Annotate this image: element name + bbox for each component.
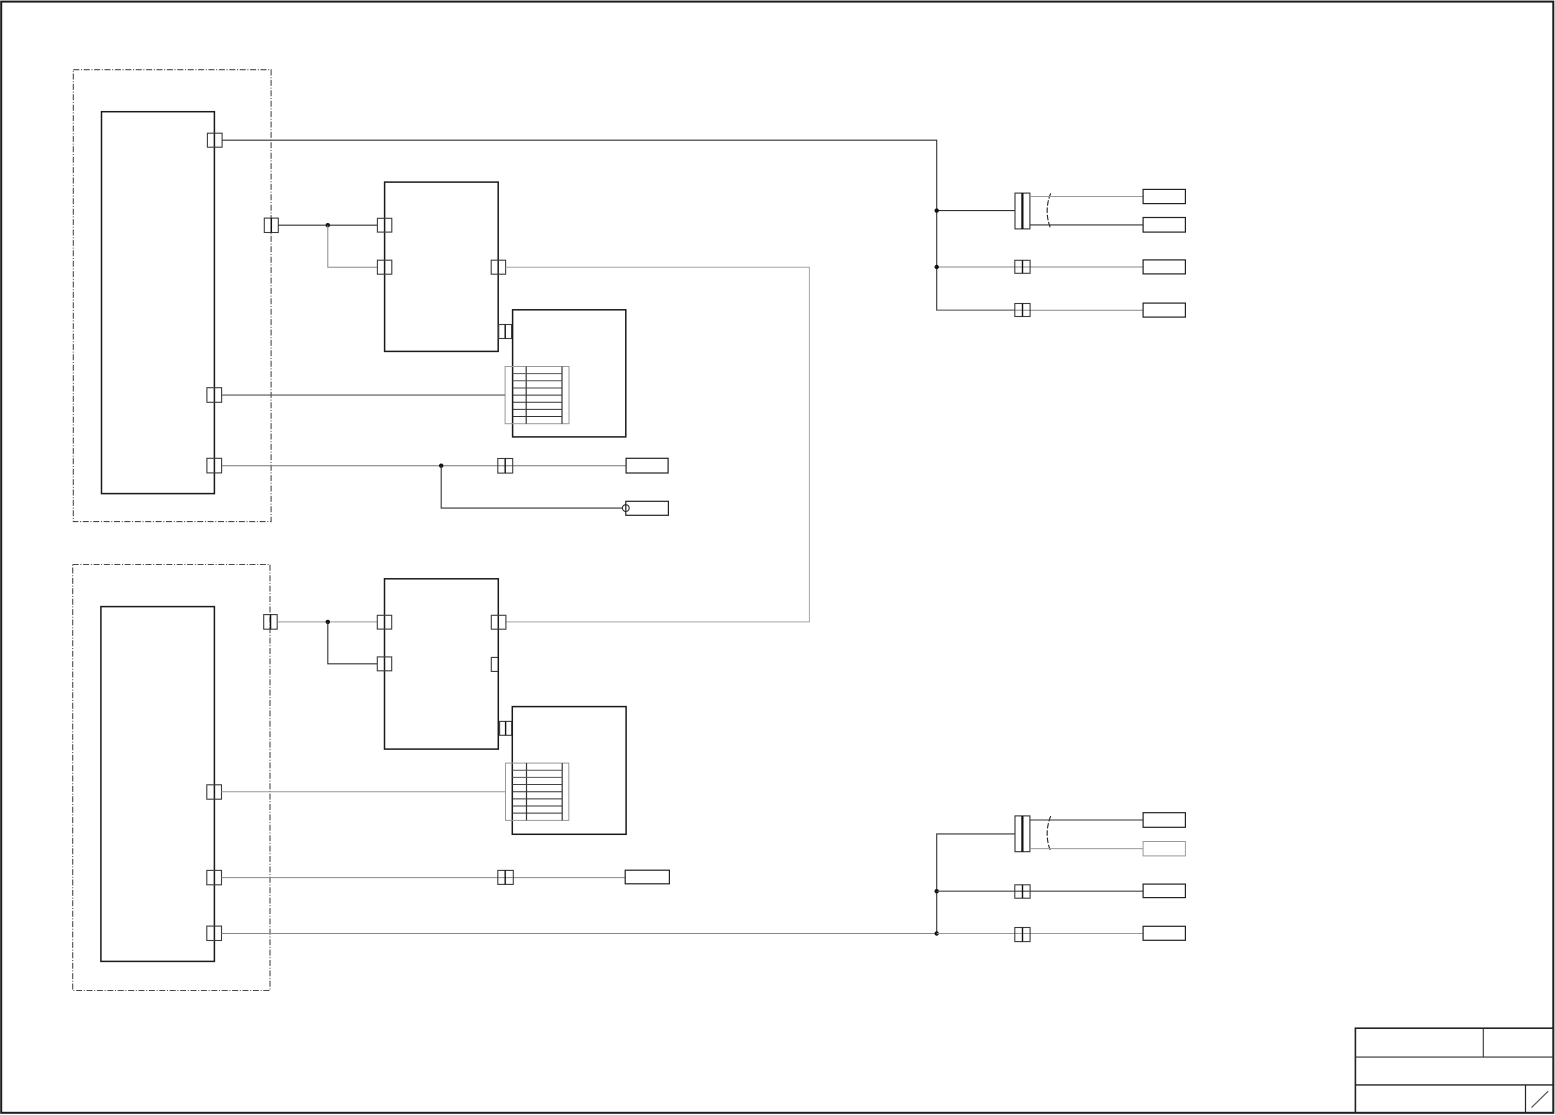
pin A2 xyxy=(207,388,222,403)
node junction xyxy=(935,265,939,269)
control unit B xyxy=(101,607,214,962)
wire TC1 out 1 xyxy=(1030,196,1143,198)
wire P1 to heater grid 2 xyxy=(222,791,506,793)
terminal R3 xyxy=(1143,260,1185,274)
shield arc 2 xyxy=(1047,816,1051,851)
pin D3 xyxy=(491,615,506,629)
node junction xyxy=(935,889,939,893)
fan unit C xyxy=(513,310,626,437)
pin P2 xyxy=(207,870,222,884)
terminal S2 xyxy=(1143,842,1185,856)
pin B1 xyxy=(377,218,391,232)
ECU D xyxy=(385,579,499,749)
connector K3 on boundary xyxy=(264,615,278,630)
node junction xyxy=(326,223,330,227)
inline connector TC2 (2-way) xyxy=(1015,816,1030,852)
wire loop ECU B to ECU D xyxy=(506,267,810,622)
terminal S1 xyxy=(1143,813,1185,828)
wire A3 row xyxy=(222,465,626,467)
harness boundary box 1 (dash-dot) xyxy=(73,70,271,522)
inter-block connector D-E xyxy=(500,721,512,735)
wire row 3 xyxy=(937,266,1143,268)
node junction xyxy=(935,931,939,935)
pin B2 xyxy=(377,260,391,274)
terminal T2 xyxy=(626,501,669,515)
wire P2 row xyxy=(222,877,626,879)
connector row3 inline xyxy=(1015,260,1030,273)
pin D1 xyxy=(377,615,391,629)
control unit A xyxy=(102,112,215,494)
wire P3 long row xyxy=(222,933,937,935)
wire TC2 out 2 xyxy=(1030,848,1143,850)
connector row4 bottom inline xyxy=(1015,928,1030,942)
node junction xyxy=(439,464,443,468)
title block xyxy=(1355,1028,1553,1113)
pin D2 xyxy=(377,657,391,671)
wire branch to ECU B pin 2 xyxy=(328,225,378,267)
pin P3 xyxy=(207,926,222,940)
pin A3 xyxy=(207,458,222,473)
ECU B xyxy=(385,182,499,351)
heater grid 2 xyxy=(506,763,569,820)
pin B3 xyxy=(491,260,505,274)
inline connector TC1 (2-way) xyxy=(1015,193,1030,229)
wire row 4 tail xyxy=(937,309,1143,311)
wire K1 to ECU B pin 1 xyxy=(278,224,377,226)
wire branch to eyelet terminal xyxy=(441,466,622,508)
terminal T3 xyxy=(625,870,669,884)
terminal R1 xyxy=(1143,189,1185,203)
wire branch to inline connector row xyxy=(937,210,1015,212)
connector K1 on boundary xyxy=(264,218,278,232)
node junction xyxy=(326,620,330,624)
connector row4 inline xyxy=(1015,304,1030,317)
wire row 4 bottom xyxy=(937,933,1143,935)
inter-block connector B-C xyxy=(499,325,512,339)
fan unit E xyxy=(512,707,626,835)
heater grid 1 xyxy=(505,367,569,424)
shield arc xyxy=(1047,193,1051,229)
wire TC2 out 1 xyxy=(1030,819,1143,821)
harness boundary box 2 (dash-dot) xyxy=(73,565,270,991)
pin P1 xyxy=(207,785,222,799)
wire K3 to ECU D pin 1 xyxy=(277,621,377,623)
wire branch to ECU D pin 2 xyxy=(328,622,378,664)
connector row3 bottom inline xyxy=(1015,885,1030,898)
eyelet circle xyxy=(622,505,629,512)
terminal S4 xyxy=(1143,926,1185,940)
pin A1 xyxy=(207,133,222,147)
wire riser to TC2 xyxy=(937,834,1015,934)
terminal R4 xyxy=(1143,303,1185,317)
connector K2 inline xyxy=(498,459,513,474)
connector K4 inline xyxy=(498,870,514,884)
wire A1 to right bus xyxy=(222,140,1015,310)
wire row 3 bottom xyxy=(937,890,1143,892)
terminal T1 xyxy=(626,458,668,473)
wire TC1 out 2 xyxy=(1030,224,1143,226)
pin D4 (half) xyxy=(491,657,498,671)
terminal R2 xyxy=(1143,218,1185,233)
wire A2 to heater grid 1 xyxy=(222,394,505,396)
terminal S3 xyxy=(1143,884,1185,898)
node junction xyxy=(935,208,939,212)
